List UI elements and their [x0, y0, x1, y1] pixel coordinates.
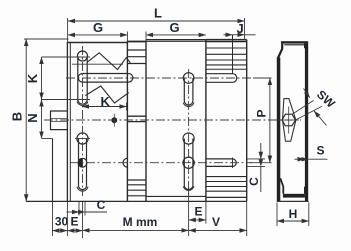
dim E right [188, 187, 190, 237]
side view cap right inner corner [304, 44, 306, 49]
side view bottom edge [277, 200, 309, 202]
left upper slot top circle [78, 51, 88, 61]
dim K vertical [42, 56, 91, 58]
right block lower slot [206, 158, 233, 160]
main axis centerline [44, 119, 266, 121]
center column bottom rungs [127, 179, 146, 181]
left upper slot body [77, 57, 79, 100]
right block top rungs [206, 47, 247, 49]
SW extension line 1 [292, 100, 314, 114]
SW extension line 2 [295, 106, 321, 120]
dim M mm [83, 229, 189, 231]
G block top edge inner [146, 40, 206, 42]
base line bottom edge of front view [26, 200, 247, 202]
side view bottom web [283, 194, 305, 198]
G block lower slot middle circle [183, 157, 194, 168]
right slot vertical centerline [188, 69, 190, 195]
right block top edge [206, 38, 247, 40]
left block left edge (outer) [66, 43, 68, 202]
upper zigzag spring [87, 53, 130, 70]
left rib edge [52, 139, 54, 202]
dim N [42, 138, 53, 140]
G block lower slot top circle [183, 133, 194, 144]
left block left edge (inner) [69, 43, 71, 202]
input stub inner lines [51, 118, 68, 120]
svg-text:B: B [10, 112, 25, 121]
svg-text:H: H [289, 207, 298, 221]
dim G right [145, 32, 147, 42]
svg-text:E: E [194, 205, 202, 219]
dim C right [247, 158, 265, 160]
side view right wall [305, 44, 308, 202]
dim J [224, 34, 233, 36]
hex crosshair horizontal [279, 119, 300, 121]
center column top rungs [127, 49, 146, 51]
dim H [276, 203, 278, 227]
dim G left [126, 32, 128, 42]
dim V [246, 202, 248, 236]
left lower slot bottom arc [79, 186, 87, 190]
side view cap left corner [278, 44, 282, 58]
svg-text:C: C [97, 198, 106, 212]
G block / right block shared edge [205, 40, 207, 202]
svg-text:30: 30 [55, 215, 69, 229]
right block bottom rungs [206, 176, 247, 178]
dim 30 [52, 202, 54, 236]
left upper slot bottom arc [78, 100, 87, 105]
right block slot vertical groove line [232, 35, 234, 74]
svg-text:E: E [70, 215, 78, 229]
G block upper slot circle [183, 73, 194, 84]
G block lower slot body [183, 139, 185, 186]
B top extension line [24, 38, 69, 40]
hex nut SW [282, 114, 295, 126]
half bore on column edge [123, 158, 127, 167]
left lower slot top circle [77, 133, 88, 144]
left slot vertical centerline [82, 46, 84, 196]
G block bottom edge [146, 195, 206, 197]
dim S [295, 158, 305, 160]
svg-text:K: K [101, 94, 111, 109]
dim L [67, 18, 69, 43]
dim E left [82, 202, 84, 238]
SW leader arrow [314, 111, 327, 126]
center column right edge [145, 41, 147, 201]
svg-text:M mm: M mm [123, 215, 158, 229]
center column left edge [126, 41, 128, 201]
hex crosshair vertical [288, 107, 290, 134]
G block lower slot bottom arc [184, 185, 193, 189]
left lower slot body [78, 139, 80, 186]
svg-text:G: G [93, 20, 103, 35]
side view top cap [281, 41, 308, 43]
center column top edge [127, 41, 146, 43]
SW outer arrow upper [304, 89, 310, 98]
lower bolt axis centerline [70, 162, 252, 164]
center column middle pair [127, 115, 146, 117]
right block upper slot [206, 73, 233, 75]
svg-text:K: K [25, 73, 40, 83]
side view left inner wall [282, 187, 284, 194]
dim B [25, 39, 27, 201]
svg-text:C: C [247, 177, 261, 186]
svg-text:N: N [25, 113, 40, 122]
input stub outline [51, 111, 68, 130]
svg-text:G: G [170, 20, 180, 35]
G block top edge outer [146, 39, 206, 41]
side view shaft lozenge [283, 99, 296, 142]
dim C bottom [78, 202, 80, 216]
svg-text:P: P [255, 109, 269, 117]
lower zigzag spring [85, 86, 128, 103]
upper bolt axis centerline [66, 77, 252, 79]
side view left lower chamfer [280, 178, 283, 186]
svg-text:L: L [154, 6, 162, 21]
center dot mark [111, 117, 117, 123]
side view cap inner line [284, 44, 305, 46]
right block right edge [246, 40, 248, 202]
svg-text:J: J [237, 21, 244, 36]
left block top edge [67, 42, 128, 44]
left lower slot middle screw [78, 158, 87, 167]
dim K horizontal [126, 103, 128, 111]
inner boundary line [72, 63, 123, 65]
side view left wall [277, 58, 281, 202]
horizontal bullet slot [83, 73, 129, 75]
side view axis centerline [268, 119, 301, 121]
svg-text:S: S [316, 144, 324, 158]
G block upper slot body [183, 78, 185, 101]
side view right inner wall [304, 187, 306, 194]
svg-text:V: V [212, 215, 220, 229]
dim P [253, 77, 272, 79]
